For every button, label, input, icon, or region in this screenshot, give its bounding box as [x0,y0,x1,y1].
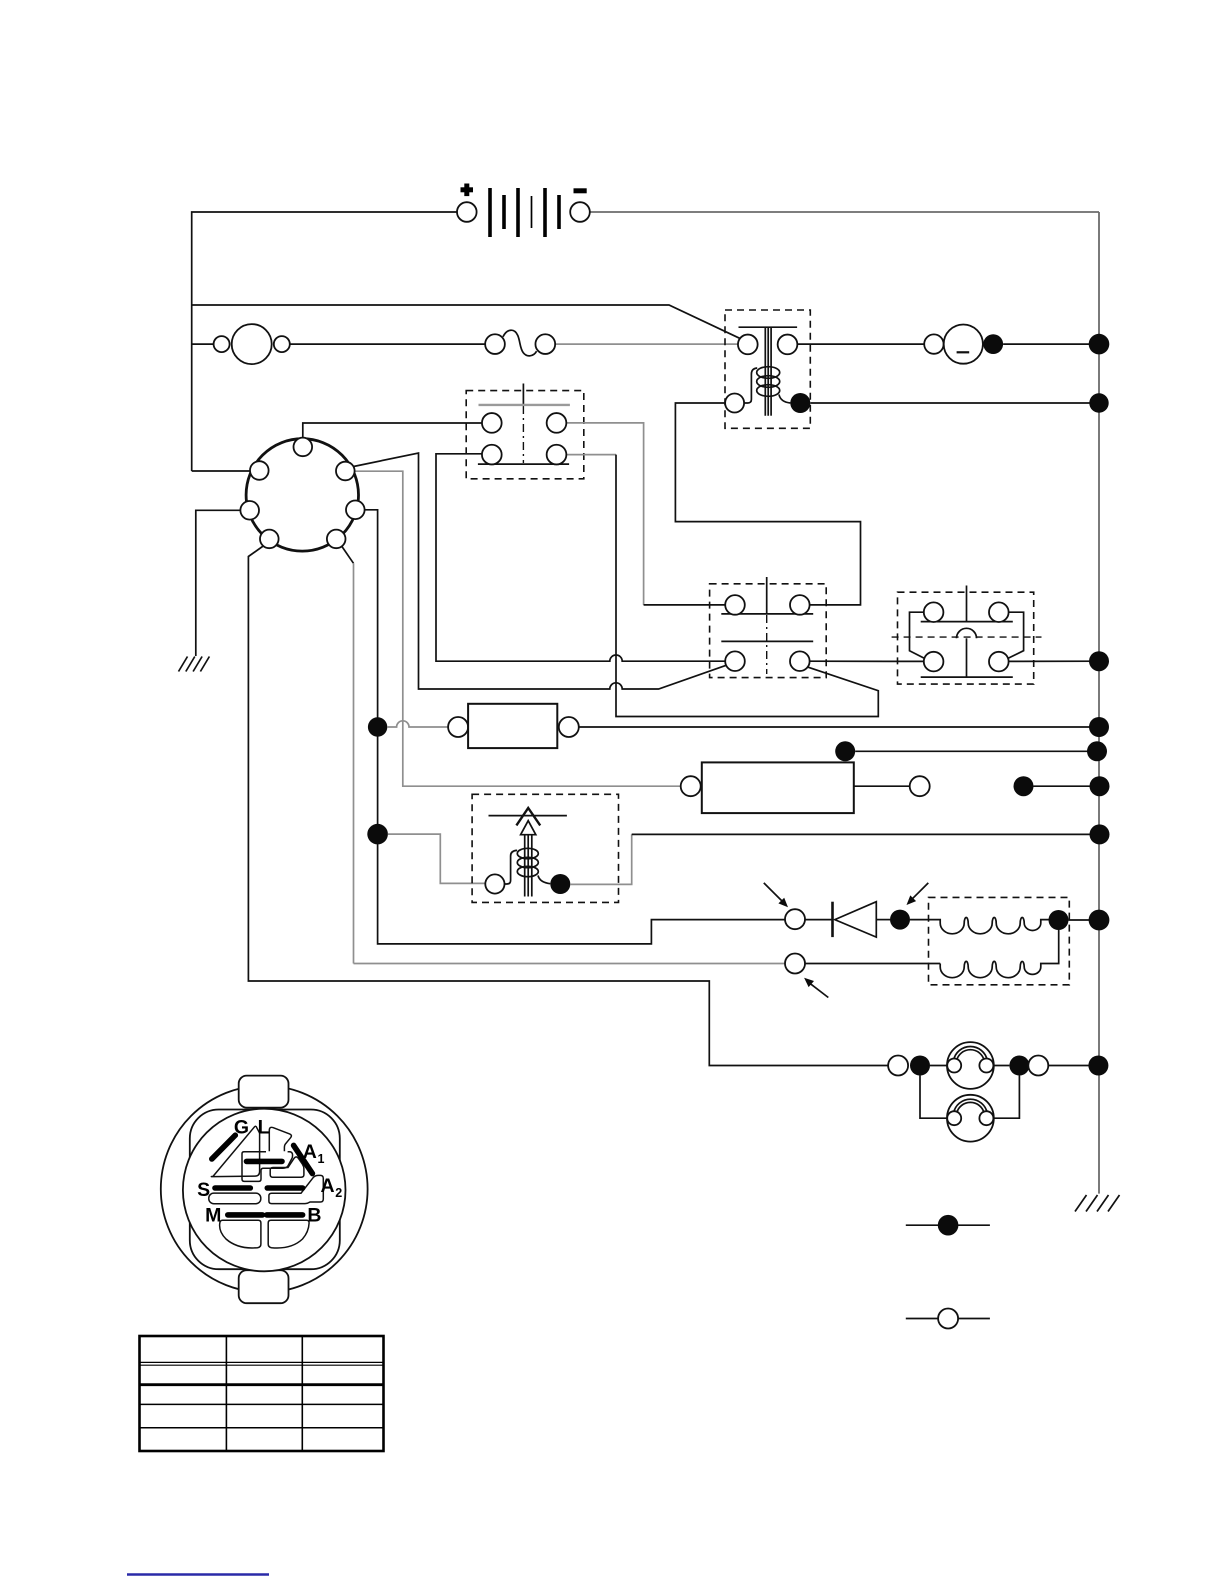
fuel solenoid coil [504,848,550,884]
key switch pin S [346,501,365,520]
battery B1 [461,184,587,238]
interlock module terminal left [448,717,468,737]
wire solenoid S to clutch switch [675,403,860,605]
clutch switch terminal top right [790,595,810,615]
wire solenoid coil dot to ground bus [810,402,1099,404]
seat switch contact bar lower [921,676,1013,678]
fuel solenoid chevron [516,808,540,825]
key terminal bar G [212,1135,236,1159]
key switch face detail [161,1076,368,1304]
key slot lower right flag [270,1157,304,1177]
wire key S drop to ignition diode [378,844,785,944]
battery positive terminal [457,202,477,222]
key switch pin ground [260,530,279,549]
clutch switch terminal bottom left [725,651,745,671]
bus junction dot spare row [1087,741,1107,761]
wire key M terminal to magneto [341,545,354,563]
arrow at diode anode connector [764,883,788,907]
wire headlight branch in [887,1065,889,1067]
ground symbol left [179,657,210,672]
seat switch plunger lower [966,638,968,677]
starter ground connector dot [983,334,1003,354]
hour meter body [702,762,854,813]
battery negative terminal [570,202,590,222]
fuel solenoid plunger arrow [525,835,532,897]
interlock module body [468,704,557,748]
wire magneto kill from key M [354,963,786,965]
key face bottom tab [239,1270,289,1303]
wire key B terminal from battery drop [192,470,251,472]
headlight open connector left [888,1056,908,1076]
hour meter terminal left [681,776,701,796]
wire headlight circuit return [616,455,878,717]
fuse F1 [485,330,555,356]
wire headlights to ground bus [1048,1065,1098,1067]
magneto primary coil [940,930,1058,978]
wire key A1 terminal to clutch-brake switch [354,453,728,689]
wire light switch out lower [566,454,616,456]
wire interlock module to ground bus [579,726,1099,728]
wire seat switch to ground bus [1009,660,1099,662]
svg-text:A: A [303,1141,317,1163]
wire anode connector to diode [805,919,833,921]
fuel solenoid box [472,794,618,902]
key face outer ring [161,1086,368,1293]
key switch pin L [294,438,313,457]
key slot bottom right [268,1220,309,1248]
wire fuel row to ground bus [632,833,1100,835]
svg-text:2: 2 [335,1186,342,1200]
wire starter to ground bus [1003,343,1099,345]
wire key A2 terminal to hour meter feed [355,471,681,786]
solenoid box [725,310,810,428]
engine box [929,897,1070,984]
diode anode connector [785,909,805,929]
seat switch dashed travel line [892,636,1042,638]
light switch actuator line [522,384,524,405]
wire battery- to right ground bus [590,211,1099,213]
bus junction dot interlock row [1089,717,1109,737]
arrow at magneto kill connector [804,978,828,998]
wire hour meter to open connector [854,785,910,787]
key slot S row left [209,1193,261,1204]
seat switch bracket right [1007,612,1023,658]
wire junction to fuel solenoid [388,834,485,883]
wire battery+ to left bus drop [192,212,457,471]
headlamp 2 [947,1095,994,1142]
bus junction dot accessory row [1090,776,1110,796]
wire ammeter row from bus drop [192,343,214,345]
bus junction dot engine row [1089,910,1110,931]
clutch switch terminal bottom right [790,651,810,671]
ground bus vertical [1098,212,1100,1194]
key face rounded square [190,1110,340,1270]
svg-text:L: L [258,1116,270,1138]
light switch centerline [522,406,524,463]
light switch fixed contact bar [478,463,569,465]
connector dot spare row [835,741,855,761]
svg-text:M: M [205,1205,221,1227]
light switch terminal bottom left [482,445,502,465]
seat switch spring arc [957,628,977,638]
wire accessory connector to ground bus [1034,785,1100,787]
wire battery feed to solenoid contact (upper loop) [192,305,740,338]
key switch pin M [327,530,346,549]
seat switch terminal bottom left [924,652,944,672]
ammeter [214,324,290,364]
wire headlamp 2 parallel branch [920,1076,1019,1119]
starter connector [924,334,943,353]
key face inner circle [183,1109,346,1272]
wire light switch feed lower [436,454,725,661]
charge coil [910,918,1058,934]
fuel solenoid arrow head [521,821,536,835]
wire junction to interlock module with hop [387,721,448,727]
fuel solenoid ground connector dot [550,874,570,894]
svg-text:S: S [197,1179,210,1201]
key terminal bar A2 [267,1185,302,1191]
key switch pin A1 [336,462,355,481]
wire key G terminal to ground [196,510,241,656]
key slot bottom left [220,1220,261,1248]
headlight connector dot right [1009,1056,1029,1076]
footer blue rule [127,1573,269,1576]
solenoid terminal starter side [778,335,798,355]
bus junction dot seat row [1089,651,1109,671]
key terminal bar B [267,1212,303,1218]
wire key S terminal drop [365,510,378,834]
clutch switch actuator line [766,577,768,613]
solenoid contact bar [739,326,798,328]
clutch switch terminal top left [725,595,745,615]
bus junction dot fuel row [1090,824,1110,844]
seat switch box [898,592,1034,684]
legend connector closed [906,1215,990,1236]
wire fuel solenoid to ground bus [570,834,631,884]
key switch connector body [246,439,358,551]
svg-text:B: B [307,1204,321,1226]
seat switch contact bar upper [921,621,1013,623]
wire diode to magneto dot [876,919,890,921]
key switch pin G [240,501,259,520]
wire engine dot to ground bus [1069,919,1100,921]
clutch-brake switch box [710,584,827,678]
wire spare connector to ground bus [855,750,1097,752]
light switch terminal bottom right [547,445,567,465]
solenoid coil [744,367,790,403]
solenoid coil ground connector dot [790,393,810,413]
wire light switch out upper to clutch [566,423,643,605]
key slot center surround [242,1152,293,1182]
bus junction dot headlight row [1088,1056,1108,1076]
key slot L pocket [269,1127,291,1151]
light switch terminal top right [547,413,567,433]
open connector hour meter [910,776,930,796]
fuel solenoid terminal [485,874,504,893]
key terminal bar L-A1 [247,1159,283,1165]
seat switch terminal top right [989,602,1009,622]
bus junction dot starter row [1089,334,1110,355]
solenoid terminal battery side [738,335,758,355]
key face top tab [239,1076,289,1108]
headlight connector dot left [910,1056,930,1076]
seat switch terminal top left [924,602,944,622]
key switch pin B [250,461,269,480]
magneto kill connector [785,954,805,974]
headlamp 1 [947,1042,994,1089]
starter motor [944,325,983,364]
key terminal bar S [215,1185,250,1191]
ground symbol bus bottom [1075,1195,1120,1212]
wire key L terminal to light switch [303,423,482,438]
wire fuse to solenoid terminal [555,343,738,345]
key terminal bar M [228,1212,263,1218]
clutch switch centerline [766,615,768,674]
solenoid coil terminal S [725,394,744,413]
wire gray to clutch top left [644,604,726,606]
wire clutch to seat switch [810,660,924,662]
light switch terminal top left [482,413,502,433]
wire ammeter to fuse [290,343,485,345]
clutch switch contact bar upper [721,613,813,615]
key slot triangle [211,1126,259,1176]
solenoid plunger [765,327,771,416]
seat switch bracket left [910,612,926,658]
diode D1 [833,902,877,937]
clutch switch contact bar lower [721,640,813,642]
magneto connector dot [890,910,910,930]
wire dot to lamp1 [930,1065,947,1067]
table [140,1336,384,1451]
junction dot fuel solenoid row [367,824,388,845]
wire solenoid to starter [797,343,924,345]
key terminal bar A1 [294,1145,313,1173]
svg-text:1: 1 [318,1152,325,1166]
legend connector open [906,1309,990,1329]
engine output connector dot [1049,910,1069,930]
headlight open connector right [1028,1056,1048,1076]
wire kill connector into engine [805,963,940,965]
key slot S row right with A2 hook [269,1175,323,1203]
light switch moving contact [479,404,570,406]
junction dot interlock row [368,717,387,736]
svg-text:A: A [320,1175,334,1197]
light switch box [466,391,584,479]
seat switch terminal bottom right [989,652,1009,672]
interlock module terminal right [559,717,579,737]
wire key ground pin to headlight feed [248,545,888,1066]
seat switch actuator line [966,586,968,622]
connector dot accessory [1014,776,1034,796]
bus junction dot solenoid row [1089,393,1108,412]
arrow at magneto connector dot [907,883,929,905]
wire lamp1 to dot right [993,1065,1009,1067]
svg-text:G: G [234,1117,249,1139]
fuel solenoid stop bar [489,815,567,817]
